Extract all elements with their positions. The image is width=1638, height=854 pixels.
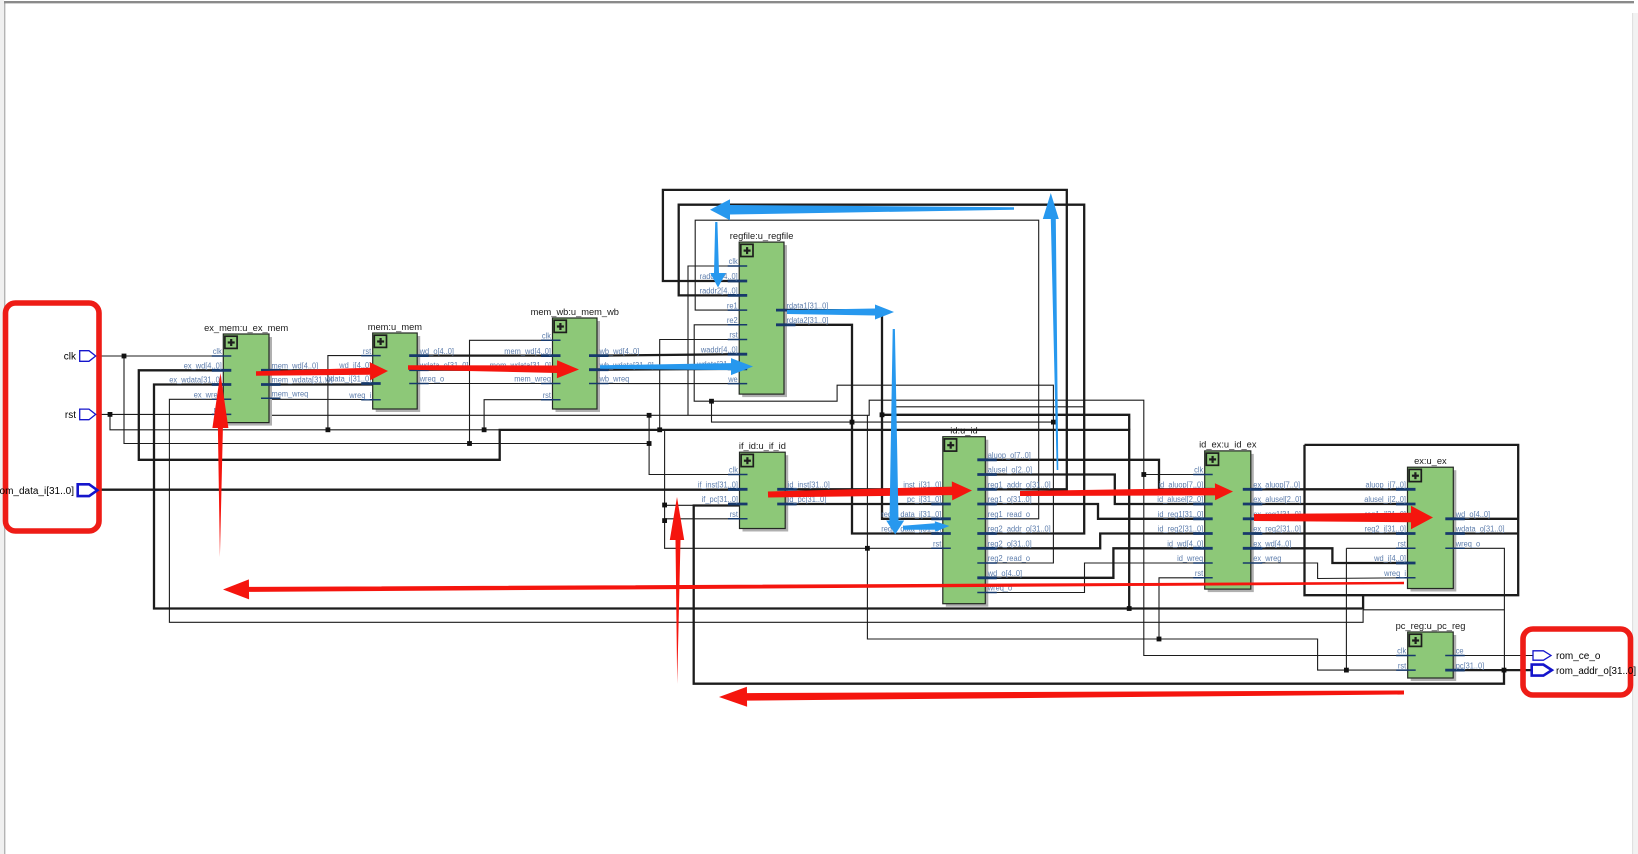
svg-text:wdata_o[31..0]: wdata_o[31..0] bbox=[1455, 525, 1505, 534]
svg-text:reg1_addr_o[31..0]: reg1_addr_o[31..0] bbox=[988, 481, 1051, 490]
svg-text:rst: rst bbox=[1398, 661, 1407, 670]
svg-text:wdata_i[31..0]: wdata_i[31..0] bbox=[324, 375, 371, 384]
svg-text:we: we bbox=[727, 375, 738, 384]
svg-text:wd_o[4..0]: wd_o[4..0] bbox=[419, 347, 454, 356]
svg-text:ex_aluop[7..0]: ex_aluop[7..0] bbox=[1253, 481, 1300, 490]
svg-text:aluop_o[7..0]: aluop_o[7..0] bbox=[988, 451, 1031, 460]
svg-text:clk: clk bbox=[729, 257, 739, 266]
svg-text:ex_mem:u_ex_mem: ex_mem:u_ex_mem bbox=[204, 323, 288, 333]
svg-text:rst: rst bbox=[65, 410, 76, 421]
svg-text:mem:u_mem: mem:u_mem bbox=[368, 322, 422, 332]
svg-text:mem_wreq: mem_wreq bbox=[514, 375, 551, 384]
svg-text:ex:u_ex: ex:u_ex bbox=[1414, 456, 1447, 466]
svg-text:reg1_o[31..0]: reg1_o[31..0] bbox=[988, 495, 1032, 504]
svg-text:clk: clk bbox=[729, 466, 739, 475]
svg-text:ex_alusel[2..0]: ex_alusel[2..0] bbox=[1253, 495, 1301, 504]
svg-text:if_pc[31..0]: if_pc[31..0] bbox=[702, 495, 738, 504]
svg-text:reg2_i[31..0]: reg2_i[31..0] bbox=[1365, 525, 1406, 534]
svg-text:rst: rst bbox=[729, 331, 738, 340]
svg-text:reg2_o[31..0]: reg2_o[31..0] bbox=[988, 540, 1032, 549]
svg-text:wb_wreq: wb_wreq bbox=[599, 375, 630, 384]
svg-text:if_inst[31..0]: if_inst[31..0] bbox=[698, 481, 738, 490]
svg-text:wd_o[4..0]: wd_o[4..0] bbox=[987, 569, 1022, 578]
svg-text:pc_i[31..0]: pc_i[31..0] bbox=[907, 495, 941, 504]
svg-text:reg1_read_o: reg1_read_o bbox=[988, 510, 1031, 519]
svg-text:clk: clk bbox=[64, 351, 77, 362]
svg-text:rst: rst bbox=[1398, 540, 1407, 549]
svg-text:mem_wd[4..0]: mem_wd[4..0] bbox=[272, 362, 319, 371]
svg-text:ex_wd[4..0]: ex_wd[4..0] bbox=[184, 362, 222, 371]
svg-text:mem_wd[4..0]: mem_wd[4..0] bbox=[504, 347, 551, 356]
svg-text:wb_wd[4..0]: wb_wd[4..0] bbox=[599, 347, 640, 356]
svg-text:raddr2[4..0]: raddr2[4..0] bbox=[700, 287, 738, 296]
svg-text:ex_wreg: ex_wreg bbox=[1253, 554, 1281, 563]
svg-text:clk: clk bbox=[1397, 647, 1407, 656]
svg-text:if_id:u_if_id: if_id:u_if_id bbox=[739, 441, 786, 451]
svg-text:wd_o[4..0]: wd_o[4..0] bbox=[1455, 510, 1490, 519]
svg-text:mem_wreq: mem_wreq bbox=[272, 390, 309, 399]
svg-text:id_inst[31..0]: id_inst[31..0] bbox=[788, 481, 830, 490]
svg-text:id_wd[4..0]: id_wd[4..0] bbox=[1167, 540, 1203, 549]
svg-text:rst: rst bbox=[543, 391, 552, 400]
svg-text:clk: clk bbox=[213, 347, 223, 356]
svg-text:rst: rst bbox=[363, 347, 372, 356]
svg-text:rom_ce_o: rom_ce_o bbox=[1556, 651, 1601, 662]
svg-text:id_alusel[2..0]: id_alusel[2..0] bbox=[1157, 495, 1203, 504]
svg-text:ex_reg2[31..0]: ex_reg2[31..0] bbox=[1253, 525, 1301, 534]
svg-text:reg2_read_o: reg2_read_o bbox=[988, 554, 1031, 563]
svg-text:re1: re1 bbox=[727, 301, 738, 310]
svg-text:clk: clk bbox=[542, 332, 552, 341]
svg-text:alusel_o[2..0]: alusel_o[2..0] bbox=[988, 466, 1032, 475]
svg-text:id_aluop[7..0]: id_aluop[7..0] bbox=[1159, 481, 1204, 490]
svg-text:rst: rst bbox=[1195, 569, 1204, 578]
svg-text:rst: rst bbox=[933, 540, 942, 549]
svg-text:mem_wb:u_mem_wb: mem_wb:u_mem_wb bbox=[531, 307, 619, 317]
svg-text:rom_addr_o[31..0]: rom_addr_o[31..0] bbox=[1556, 666, 1636, 677]
svg-text:re2: re2 bbox=[727, 316, 738, 325]
svg-text:alusel_i[2..0]: alusel_i[2..0] bbox=[1364, 495, 1406, 504]
svg-text:aluop_i[7..0]: aluop_i[7..0] bbox=[1366, 481, 1407, 490]
svg-text:wd_i[4..0]: wd_i[4..0] bbox=[1373, 554, 1406, 563]
svg-text:rom_data_i[31..0]: rom_data_i[31..0] bbox=[0, 486, 74, 497]
svg-text:clk: clk bbox=[1194, 466, 1204, 475]
svg-text:rdata2[31..0]: rdata2[31..0] bbox=[787, 316, 829, 325]
svg-text:id_reg1[31..0]: id_reg1[31..0] bbox=[1158, 510, 1204, 519]
svg-text:reg2_addr_o[31..0]: reg2_addr_o[31..0] bbox=[988, 525, 1051, 534]
svg-text:waddr[4..0]: waddr[4..0] bbox=[700, 345, 738, 354]
svg-text:id_reg2[31..0]: id_reg2[31..0] bbox=[1158, 525, 1204, 534]
svg-text:wreq_o: wreq_o bbox=[419, 375, 445, 384]
svg-text:mem_wdata[31..0]: mem_wdata[31..0] bbox=[272, 376, 333, 385]
svg-text:pc_reg:u_pc_reg: pc_reg:u_pc_reg bbox=[1396, 621, 1466, 631]
svg-text:rdata1[31..0]: rdata1[31..0] bbox=[787, 301, 829, 310]
svg-text:pc[31..0]: pc[31..0] bbox=[1456, 661, 1485, 670]
svg-text:ce: ce bbox=[1456, 647, 1464, 656]
svg-text:id_ex:u_id_ex: id_ex:u_id_ex bbox=[1199, 440, 1257, 450]
svg-text:id:u_id: id:u_id bbox=[950, 426, 977, 436]
svg-text:wreq_o: wreq_o bbox=[1455, 540, 1481, 549]
svg-text:rst: rst bbox=[730, 510, 739, 519]
svg-text:wreq_i: wreq_i bbox=[1383, 569, 1406, 578]
svg-text:wreq_i: wreq_i bbox=[348, 391, 371, 400]
svg-text:id_wreq: id_wreq bbox=[1177, 554, 1203, 563]
svg-text:regfile:u_regfile: regfile:u_regfile bbox=[730, 231, 794, 241]
svg-text:ex_wd[4..0]: ex_wd[4..0] bbox=[1253, 540, 1291, 549]
svg-text:ex_wdata[31..0]: ex_wdata[31..0] bbox=[169, 376, 222, 385]
